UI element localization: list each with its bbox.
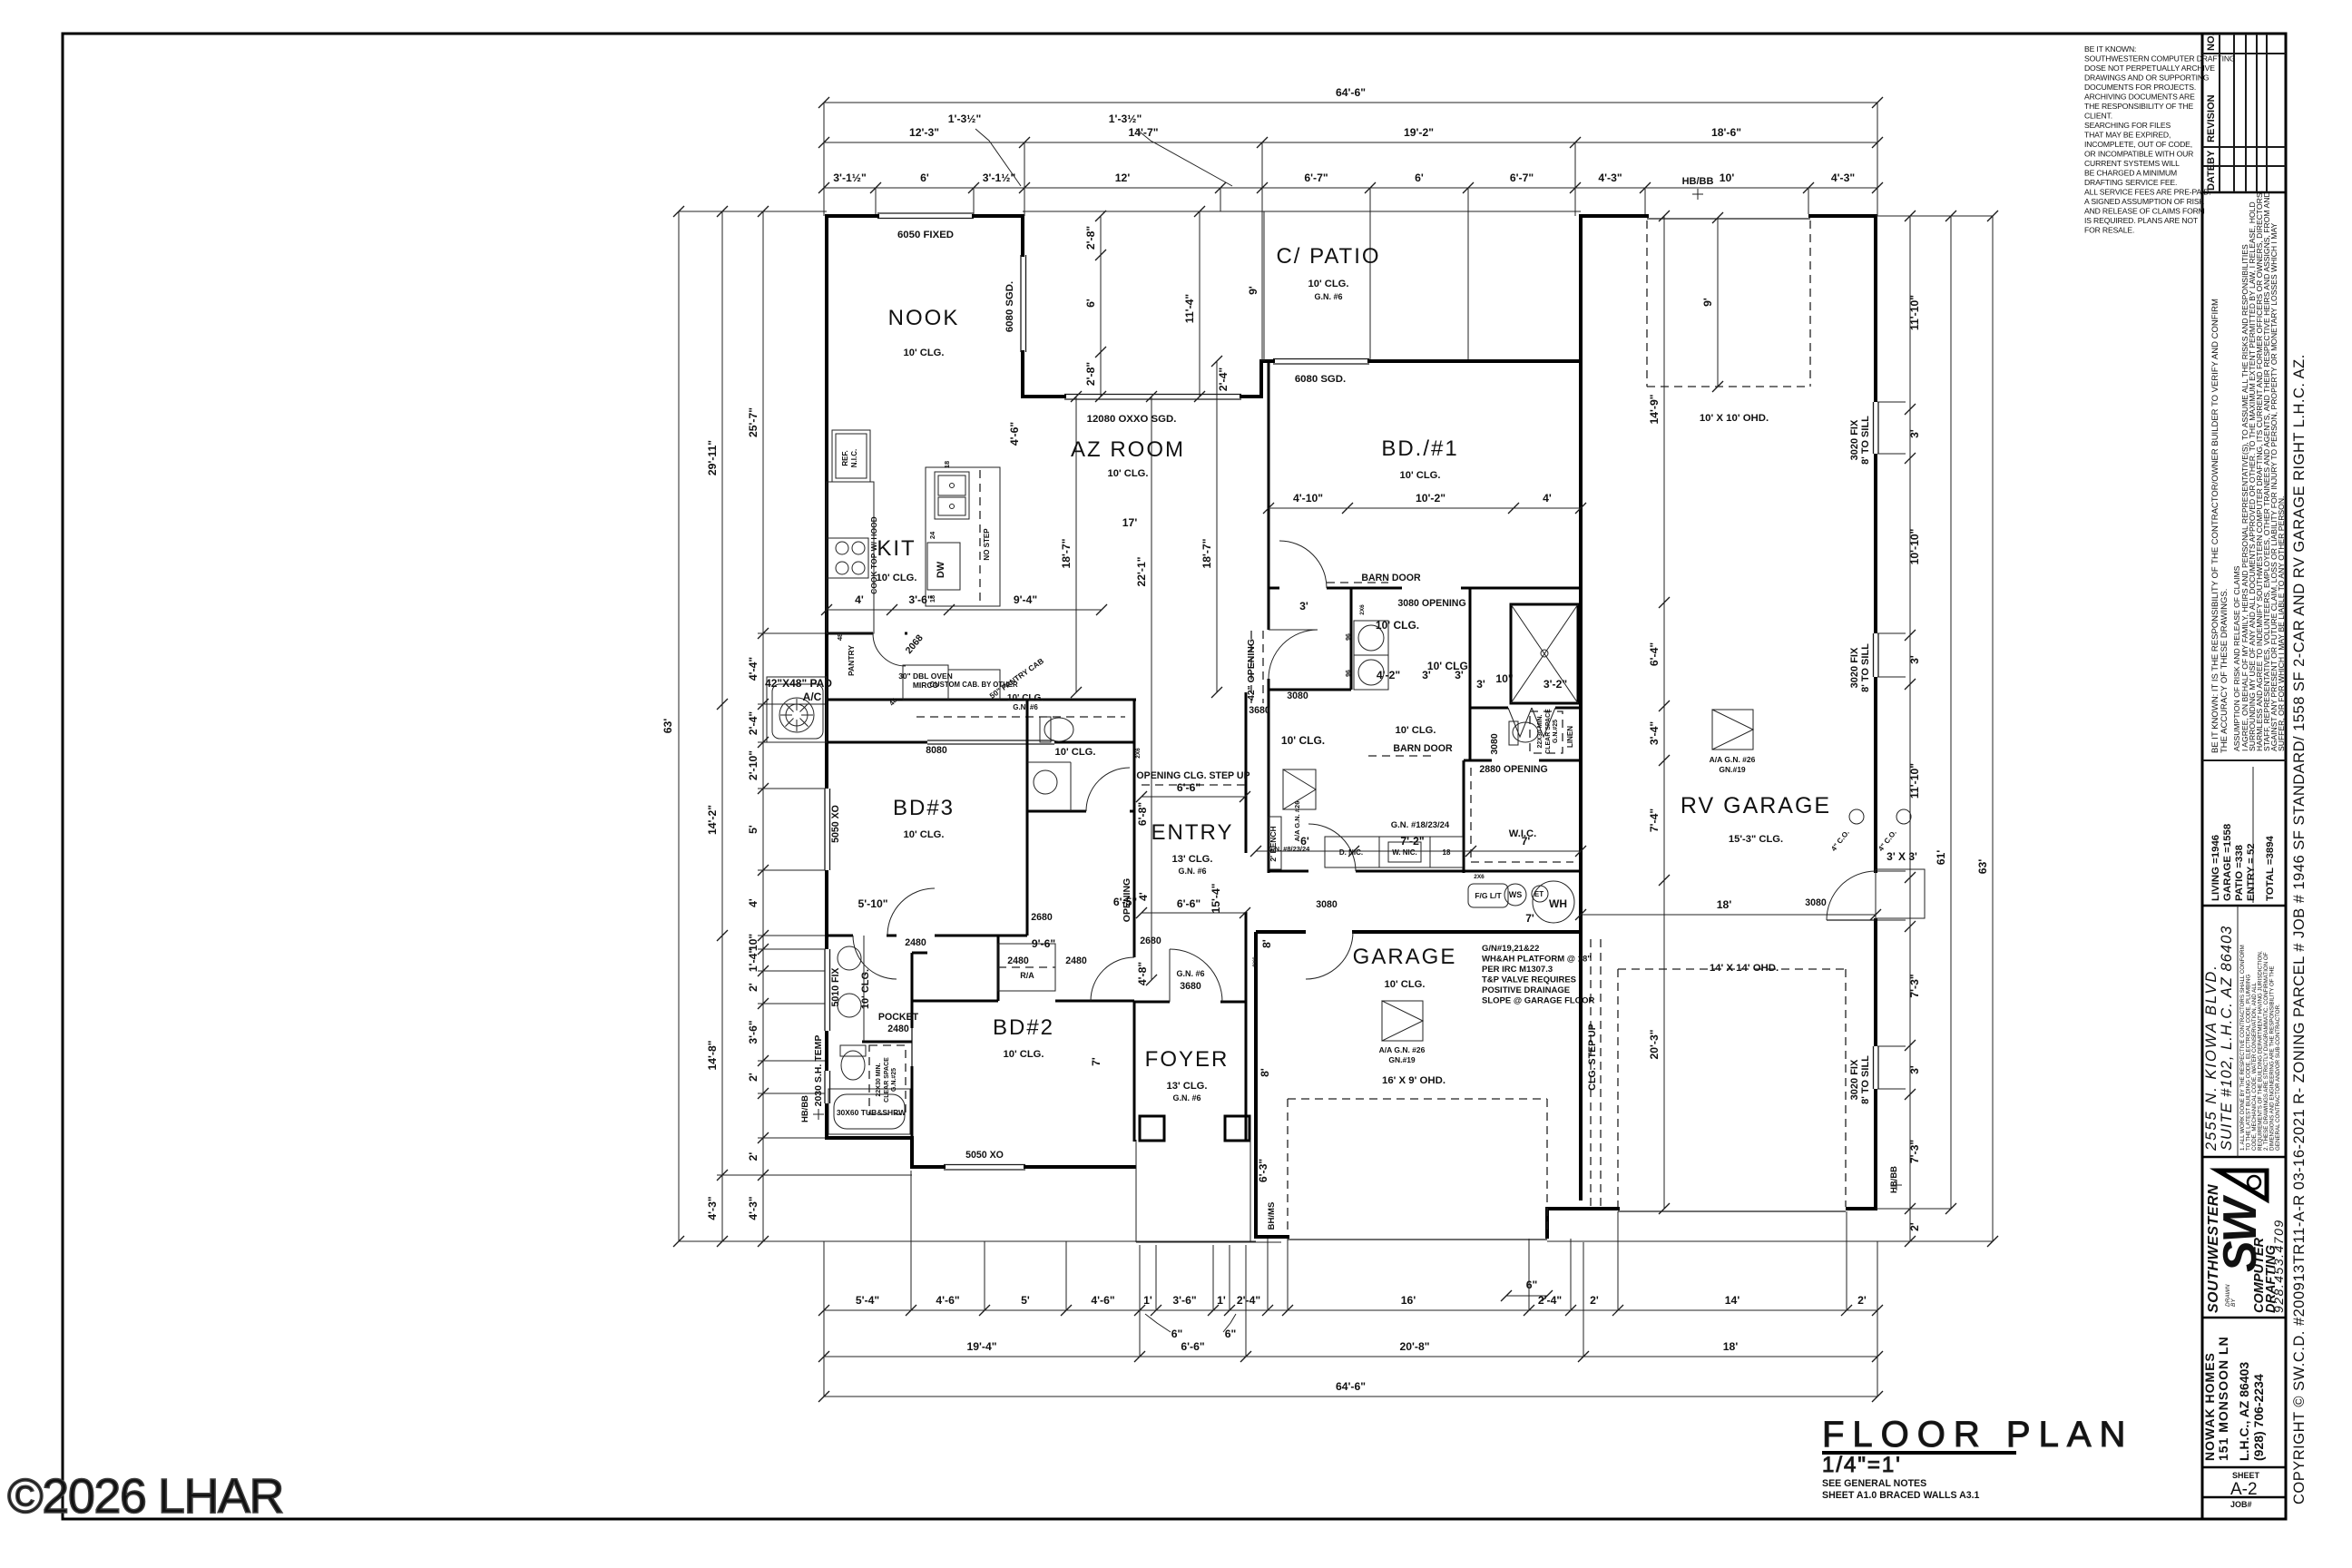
wall: RV garage east (1874, 214, 1877, 402)
svg-text:2X6: 2X6 (1474, 874, 1485, 880)
svg-text:LINEN: LINEN (1566, 726, 1574, 748)
svg-text:G.N. #18/23/24: G.N. #18/23/24 (1391, 820, 1450, 830)
powder room west wall (1026, 700, 1029, 811)
wall: bath south (825, 1136, 914, 1140)
svg-text:3'-6": 3'-6" (747, 1020, 759, 1044)
window 6080 SGD nook east (1020, 255, 1022, 352)
svg-text:30" DBL OVEN: 30" DBL OVEN (898, 671, 953, 681)
svg-text:G.N. #8/23/24: G.N. #8/23/24 (1268, 845, 1311, 853)
svg-text:96: 96 (1346, 633, 1352, 641)
svg-text:6": 6" (1171, 1328, 1183, 1340)
svg-text:2480: 2480 (905, 937, 926, 948)
bath1 clear space dashed (869, 1045, 906, 1114)
barn door dashed (1327, 582, 1388, 583)
dim 63 left (678, 211, 680, 1241)
svg-text:18': 18' (1717, 898, 1732, 911)
wall: BD2 south (5050 XO) (912, 1165, 946, 1169)
svg-text:G/N#19,21&22: G/N#19,21&22 (1482, 944, 1539, 954)
svg-text:10' CLG.: 10' CLG. (877, 573, 917, 583)
svg-text:W.I.C.: W.I.C. (1509, 828, 1536, 839)
svg-text:4'-8": 4'-8" (1136, 962, 1149, 985)
svg-text:SEE GENERAL NOTES: SEE GENERAL NOTES (1822, 1478, 1926, 1489)
svg-text:W. NIC.: W. NIC. (1392, 848, 1417, 857)
svg-text:4': 4' (1137, 892, 1150, 901)
BD1 south wall (doors) (1269, 587, 1279, 590)
svg-text:5050 XO: 5050 XO (965, 1150, 1004, 1161)
svg-text:GENERAL CONTRACTOR AND/OR SUB-: GENERAL CONTRACTOR AND/OR SUB-CONTRACTOR… (2275, 1004, 2281, 1151)
dim chain bottom overall (824, 1396, 1877, 1397)
RV A/A (1712, 710, 1753, 750)
svg-text:WS: WS (1509, 890, 1523, 899)
door 3080 RV east + arc (1827, 919, 1876, 921)
svg-text:18'-7": 18'-7" (1060, 538, 1073, 568)
svg-text:18'-6": 18'-6" (1711, 126, 1741, 139)
svg-text:10' CLG.: 10' CLG. (860, 969, 871, 1009)
master vanity boxes (1325, 837, 1379, 867)
svg-text:5010 FIX: 5010 FIX (830, 968, 841, 1007)
svg-text:4'-3": 4'-3" (706, 1196, 719, 1220)
hall wall y771 (827, 699, 1136, 701)
svg-text:ENTRY: ENTRY (1151, 820, 1234, 845)
svg-text:3': 3' (1299, 600, 1308, 612)
master toilet (1513, 722, 1538, 742)
svg-text:BARN DOOR: BARN DOOR (1361, 573, 1421, 583)
svg-text:14'-9": 14'-9" (1648, 394, 1661, 424)
svg-text:L.H.C., AZ 86403: L.H.C., AZ 86403 (2237, 1362, 2251, 1461)
svg-text:4'-4": 4'-4" (747, 657, 759, 681)
svg-text:PANTRY: PANTRY (847, 645, 856, 676)
svg-text:6'-6": 6'-6" (1177, 897, 1200, 910)
svg-text:RV GARAGE: RV GARAGE (1681, 793, 1831, 818)
dim chain top row3 (824, 187, 1877, 189)
svg-text:OPENING CLG. STEP UP: OPENING CLG. STEP UP (1136, 770, 1249, 781)
svg-text:2': 2' (1857, 1294, 1867, 1307)
svg-text:6'-7": 6'-7" (1510, 171, 1534, 184)
svg-text:2': 2' (747, 1073, 759, 1082)
entry closet A/A (1283, 769, 1316, 809)
SW logo box (2202, 1171, 2286, 1318)
svg-text:6': 6' (920, 171, 929, 184)
svg-text:1'-3½": 1'-3½" (1109, 113, 1142, 125)
svg-text:GARAGE =1558: GARAGE =1558 (2222, 824, 2233, 901)
svg-text:2030 S.H. TEMP: 2030 S.H. TEMP (813, 1035, 824, 1107)
svg-text:48: 48 (836, 633, 844, 641)
svg-text:14'-2": 14'-2" (706, 805, 719, 835)
svg-text:COOK TOP W/ HOOD: COOK TOP W/ HOOD (869, 516, 878, 594)
svg-text:SUFFER, OR FOR WHICH I MAY BE: SUFFER, OR FOR WHICH I MAY BE LIABLE TO … (2277, 496, 2286, 751)
svg-text:R/A: R/A (1020, 971, 1034, 980)
C.O. circles (1849, 809, 1864, 824)
dashed entry/AZ opening (1142, 784, 1245, 786)
dim chain left row3 (762, 211, 764, 1241)
svg-text:10' CLG.: 10' CLG. (1004, 1049, 1044, 1060)
svg-text:22X30 MIN.: 22X30 MIN. (876, 1063, 882, 1096)
svg-text:20'-8": 20'-8" (1399, 1340, 1429, 1353)
wall: AZ room north (12080 OXXO SGD) (1023, 395, 1066, 398)
svg-text:6080 SGD.: 6080 SGD. (1004, 281, 1015, 332)
svg-text:6': 6' (1084, 299, 1097, 308)
fridge (832, 430, 870, 482)
BD3 east wall (1026, 811, 1029, 936)
wall: NOOK east (1021, 216, 1024, 257)
svg-text:63': 63' (1976, 859, 1989, 875)
svg-text:96: 96 (1346, 670, 1352, 677)
svg-text:12080 OXXO SGD.: 12080 OXXO SGD. (1087, 414, 1177, 425)
svg-text:CLEAR SPACE: CLEAR SPACE (884, 1057, 890, 1102)
svg-text:CLG. STEP UP: CLG. STEP UP (1587, 1024, 1598, 1090)
svg-text:10' CLG.: 10' CLG. (1055, 747, 1096, 758)
sheet box (2202, 1471, 2286, 1509)
svg-text:30X60 TUB&SHRW: 30X60 TUB&SHRW (837, 1108, 906, 1117)
svg-text:©2026 LHAR: ©2026 LHAR (7, 1469, 283, 1524)
patio roof edge lines (1023, 211, 1581, 212)
svg-text:18: 18 (1443, 848, 1451, 857)
oven/cab boxes (903, 665, 948, 700)
hall dashed attic access (916, 716, 1125, 718)
wall: garage step (1545, 1207, 1549, 1239)
svg-text:THAT MAY BE EXPIRED,: THAT MAY BE EXPIRED, (2084, 131, 2171, 140)
washer/dryer (1354, 621, 1388, 655)
window 12080 OXXO SGD (1064, 394, 1241, 396)
svg-text:2X6: 2X6 (1252, 956, 1259, 967)
svg-text:11'-10": 11'-10" (1908, 295, 1921, 330)
svg-text:3020 FIX: 3020 FIX (1849, 1059, 1860, 1100)
svg-text:10'-10": 10'-10" (1908, 529, 1921, 565)
svg-text:BE CHARGED A MINIMUM: BE CHARGED A MINIMUM (2084, 169, 2177, 178)
shower (1511, 604, 1578, 703)
svg-text:10' CLG.: 10' CLG. (1308, 279, 1349, 289)
svg-text:SOUTHWESTERN COMPUTER DRAFTING: SOUTHWESTERN COMPUTER DRAFTING (2084, 54, 2236, 64)
svg-text:2X6: 2X6 (1359, 604, 1366, 615)
svg-text:BD#3: BD#3 (893, 796, 955, 820)
garage A/A (1382, 1001, 1423, 1041)
left extension lines (679, 211, 827, 212)
svg-text:A-2: A-2 (2230, 1480, 2258, 1499)
hall vestibule walls (997, 936, 1000, 1001)
svg-text:64'-6": 64'-6" (1336, 86, 1366, 99)
svg-text:3'-1½": 3'-1½" (983, 171, 1015, 184)
door arc bath1 (853, 936, 897, 979)
svg-text:4'-6": 4'-6" (936, 1294, 959, 1307)
svg-text:42"X48" PAD: 42"X48" PAD (765, 677, 832, 690)
dim chain BD1 row (1269, 507, 1581, 509)
svg-text:2'-4": 2'-4" (1217, 367, 1230, 391)
master toilet clear space dashed (1530, 711, 1563, 753)
svg-text:14': 14' (1725, 1294, 1740, 1307)
svg-text:22X30 MIN.: 22X30 MIN. (1537, 714, 1543, 748)
powder toilet (1044, 718, 1073, 741)
folding door 3080 WC (1508, 708, 1555, 737)
svg-text:N.I.C.: N.I.C. (850, 449, 858, 467)
svg-text:7'-3": 7'-3" (1908, 974, 1921, 997)
dim chain left row2 (721, 211, 723, 1241)
svg-text:NOWAK HOMES: NOWAK HOMES (2202, 1352, 2217, 1461)
svg-text:2': 2' (747, 1152, 759, 1161)
svg-text:IS REQUIRED. PLANS ARE NOT: IS REQUIRED. PLANS ARE NOT (2084, 216, 2199, 225)
svg-text:2480: 2480 (887, 1024, 909, 1034)
top extension lines (823, 103, 825, 216)
wall: entry west (1133, 700, 1136, 957)
WIC north wall (2880 opening) (1464, 759, 1492, 762)
wall: garage north (1256, 930, 1306, 934)
BD2 north wall (912, 1000, 998, 1003)
svg-text:1': 1' (1217, 1294, 1226, 1307)
svg-text:29'-11": 29'-11" (706, 440, 719, 475)
door arc laundry (1279, 541, 1327, 588)
svg-text:16' X 9' OHD.: 16' X 9' OHD. (1382, 1075, 1445, 1086)
bath1 vanity sinks (838, 946, 861, 970)
svg-text:NOOK: NOOK (888, 306, 960, 330)
svg-text:151 MONSOON LN: 151 MONSOON LN (2216, 1336, 2230, 1461)
svg-text:BD./#1: BD./#1 (1381, 436, 1458, 461)
svg-text:BARN DOOR: BARN DOOR (1393, 743, 1453, 754)
powder room south wall (1027, 810, 1086, 813)
svg-text:LIVING =1946: LIVING =1946 (2210, 835, 2221, 901)
areas box (2202, 760, 2286, 906)
master south wall (door) (1269, 870, 1308, 873)
svg-text:BY: BY (2230, 1298, 2237, 1307)
WIC west wall (1463, 760, 1465, 873)
master WC/shower block west wall (1469, 588, 1472, 760)
svg-text:10' CLG.: 10' CLG. (1396, 725, 1436, 736)
svg-text:22'-1": 22'-1" (1135, 556, 1148, 586)
svg-text:19'-4": 19'-4" (966, 1340, 996, 1353)
svg-text:15'-3" CLG.: 15'-3" CLG. (1729, 834, 1783, 845)
SW logo graphic (2214, 1171, 2267, 1272)
dashed 42in opening (1250, 631, 1252, 703)
svg-text:8': 8' (1259, 1068, 1271, 1077)
svg-text:14'-7": 14'-7" (1128, 126, 1158, 139)
svg-text:D. NIC.: D. NIC. (1339, 848, 1363, 857)
svg-text:2'-4": 2'-4" (747, 711, 759, 735)
svg-text:T&P VALVE REQUIRES: T&P VALVE REQUIRES (1482, 975, 1576, 985)
dim chain bottom row2 (824, 1356, 1877, 1357)
svg-text:4'-3": 4'-3" (747, 1196, 759, 1220)
svg-text:HB/BB: HB/BB (800, 1095, 810, 1122)
dim chain bottom row1 (824, 1309, 1877, 1311)
right extension lines (1876, 215, 1993, 217)
svg-text:C/ PATIO: C/ PATIO (1276, 244, 1380, 269)
svg-text:3020 FIX: 3020 FIX (1849, 419, 1860, 460)
svg-text:TOTAL =3894: TOTAL =3894 (2265, 835, 2276, 901)
svg-text:SHEET: SHEET (2232, 1471, 2260, 1480)
svg-text:12': 12' (1115, 171, 1131, 184)
svg-text:BY: BY (2206, 150, 2217, 164)
wall: foyer top (3680 door) (1134, 1001, 1170, 1004)
wall: bath/BD2 step (910, 1136, 914, 1169)
svg-text:7': 7' (1525, 912, 1534, 925)
svg-text:13' CLG.: 13' CLG. (1167, 1081, 1208, 1092)
svg-text:10' X 10' OHD.: 10' X 10' OHD. (1700, 413, 1769, 424)
svg-text:4': 4' (747, 898, 759, 907)
svg-text:8' TO SILL: 8' TO SILL (1860, 1055, 1871, 1104)
dashed 16x9 OHD door (1287, 1099, 1289, 1234)
svg-text:3080 OPENING: 3080 OPENING (1397, 598, 1465, 609)
svg-text:2'-4": 2'-4" (1237, 1294, 1260, 1307)
svg-text:HB/BB: HB/BB (1889, 1166, 1899, 1193)
svg-text:12'-3": 12'-3" (909, 126, 939, 139)
svg-text:NO.: NO. (2206, 33, 2217, 51)
svg-text:24: 24 (928, 531, 936, 539)
dashed 14x14 OHD door (1617, 969, 1619, 1207)
svg-text:11'-4": 11'-4" (1183, 294, 1196, 323)
svg-text:3' X 3': 3' X 3' (1886, 850, 1917, 863)
svg-text:7'-2": 7'-2" (1400, 835, 1424, 848)
svg-text:4'-3": 4'-3" (1598, 171, 1622, 184)
svg-text:9'-4": 9'-4" (1014, 593, 1037, 606)
bath1 toilet (841, 1051, 865, 1080)
svg-text:G.N.#25: G.N.#25 (1553, 720, 1559, 743)
svg-text:5': 5' (1021, 1294, 1030, 1307)
svg-text:10': 10' (1720, 171, 1735, 184)
bath1 tub (828, 1089, 910, 1134)
svg-text:928.453.4709: 928.453.4709 (2271, 1219, 2286, 1313)
svg-text:18'-7": 18'-7" (1200, 538, 1213, 568)
svg-text:2480: 2480 (1065, 955, 1087, 966)
island (926, 467, 1000, 606)
svg-text:DRAWINGS AND OR SUPPORTING: DRAWINGS AND OR SUPPORTING (2084, 73, 2210, 83)
svg-text:CURRENT SYSTEMS WILL: CURRENT SYSTEMS WILL (2084, 159, 2180, 168)
svg-text:6'-4": 6'-4" (1648, 642, 1661, 666)
svg-text:3'-2": 3'-2" (1543, 678, 1567, 691)
svg-text:9': 9' (1701, 298, 1714, 307)
svg-text:20'-3": 20'-3" (1648, 1029, 1661, 1059)
dim chain kitchen row (827, 609, 1102, 611)
svg-text:JOB#: JOB# (2230, 1500, 2252, 1509)
svg-text:ALL SERVICE FEES ARE PRE-PAID.: ALL SERVICE FEES ARE PRE-PAID. (2084, 188, 2211, 197)
svg-text:PER IRC M1307.3: PER IRC M1307.3 (1482, 965, 1553, 975)
svg-text:2': 2' (747, 983, 759, 992)
svg-text:ENTRY = 52: ENTRY = 52 (2246, 843, 2257, 901)
svg-text:3': 3' (1908, 1065, 1921, 1074)
svg-text:17': 17' (1122, 516, 1138, 529)
svg-text:6050 FIXED: 6050 FIXED (897, 230, 954, 240)
svg-text:4': 4' (1543, 492, 1552, 505)
svg-text:OR INCOMPATIBLE WITH OUR: OR INCOMPATIBLE WITH OUR (2084, 150, 2193, 159)
svg-text:7': 7' (1090, 1057, 1102, 1066)
svg-text:7'-4": 7'-4" (1648, 808, 1661, 832)
svg-text:AZ ROOM: AZ ROOM (1071, 437, 1185, 462)
svg-text:WH: WH (1549, 897, 1567, 910)
dim chain RV chain (1663, 216, 1665, 1209)
CLG STEP UP dash-dot (1590, 939, 1592, 1207)
door arc BD3 (887, 888, 935, 936)
svg-text:4'-6": 4'-6" (1008, 422, 1021, 446)
svg-text:PATIO =338: PATIO =338 (2234, 845, 2245, 901)
svg-text:A/A G.N. #26: A/A G.N. #26 (1710, 755, 1756, 764)
svg-text:CLIENT.: CLIENT. (2084, 112, 2112, 121)
svg-text:19'-2": 19'-2" (1404, 126, 1434, 139)
svg-text:A SIGNED ASSUMPTION OF RISK: A SIGNED ASSUMPTION OF RISK (2084, 197, 2204, 206)
svg-text:10' CLG.: 10' CLG. (1376, 619, 1419, 632)
svg-text:10' CLG.: 10' CLG. (1400, 470, 1441, 481)
bench (1269, 817, 1281, 869)
svg-text:4'-10": 4'-10" (1293, 492, 1323, 505)
door arc BD2 (1091, 957, 1134, 1001)
shower/WC divider (1470, 707, 1508, 710)
svg-text:2X6: 2X6 (1135, 748, 1142, 759)
bath1 partition (862, 1041, 912, 1044)
svg-text:SUITE #102, L.H.C. AZ 86403: SUITE #102, L.H.C. AZ 86403 (2219, 926, 2235, 1151)
svg-text:G.N. #6: G.N. #6 (1176, 969, 1204, 978)
rotated disclaimer paragraphs (2210, 191, 2286, 753)
wall: house/RV garage division (1579, 214, 1583, 1200)
svg-text:3'-6": 3'-6" (1172, 1294, 1196, 1307)
wall: entry east (1245, 692, 1248, 853)
svg-text:3080: 3080 (1316, 899, 1338, 910)
svg-text:G.N.#25: G.N.#25 (891, 1068, 897, 1092)
svg-text:ET: ET (1534, 890, 1543, 898)
dim 61 right (1950, 216, 1952, 1209)
svg-text:64'-6": 64'-6" (1336, 1380, 1366, 1393)
window 3020 FIX middle (1873, 633, 1875, 677)
svg-text:2480: 2480 (1007, 955, 1029, 966)
svg-text:10' CLG.: 10' CLG. (1281, 734, 1325, 747)
window 6050 FIXED (877, 212, 974, 214)
svg-text:16': 16' (1401, 1294, 1416, 1307)
svg-text:4': 4' (855, 593, 864, 606)
svg-text:THE ACCURACY OF THESE DRAWINGS: THE ACCURACY OF THESE DRAWINGS. (2220, 589, 2229, 753)
svg-text:BH/MS: BH/MS (1267, 1202, 1277, 1230)
pantry door arc 2068 (873, 633, 906, 666)
svg-text:1/4"=1': 1/4"=1' (1822, 1453, 1902, 1477)
svg-text:OPENING: OPENING (1122, 878, 1132, 922)
svg-text:6'-7": 6'-7" (1304, 171, 1328, 184)
svg-text:10' CLG.: 10' CLG. (904, 829, 945, 840)
svg-text:2'-8": 2'-8" (1084, 362, 1097, 386)
svg-text:1': 1' (1143, 1294, 1152, 1307)
svg-text:GN.#19: GN.#19 (1719, 765, 1746, 774)
svg-text:A/C: A/C (803, 691, 822, 703)
svg-text:KIT: KIT (877, 536, 916, 561)
svg-text:FOYER: FOYER (1145, 1047, 1230, 1072)
svg-text:3'-1½": 3'-1½" (833, 171, 866, 184)
svg-text:3'-4": 3'-4" (1648, 721, 1661, 745)
svg-text:GN.#19: GN.#19 (1388, 1055, 1416, 1064)
window 2030 S.H. west (824, 1071, 826, 1103)
svg-text:14'-8": 14'-8" (706, 1040, 719, 1070)
svg-text:8': 8' (1260, 939, 1273, 948)
svg-text:6": 6" (1225, 1328, 1237, 1340)
svg-text:REVISION: REVISION (2206, 94, 2217, 142)
window 5050 XO BD2 (944, 1164, 1025, 1166)
svg-text:FOR RESALE.: FOR RESALE. (2084, 226, 2134, 235)
svg-text:5050 XO: 5050 XO (830, 805, 841, 843)
svg-text:6'-3": 6'-3" (1257, 1159, 1269, 1182)
svg-text:13' CLG.: 13' CLG. (1172, 854, 1213, 865)
wall: RV garage south (1846, 1207, 1877, 1210)
svg-text:10'-2": 10'-2" (1416, 492, 1445, 505)
svg-text:DRAFTING SERVICE FEE.: DRAFTING SERVICE FEE. (2084, 178, 2177, 187)
dim chain garage hall row (1256, 850, 1581, 852)
window 5010 FIX west (824, 949, 826, 1031)
svg-text:FLOOR PLAN: FLOOR PLAN (1822, 1415, 2133, 1455)
svg-text:10' CLG.: 10' CLG. (904, 348, 945, 358)
svg-text:5'-4": 5'-4" (856, 1294, 879, 1307)
hall cabinet (998, 944, 1055, 991)
window 5050 XO west (824, 789, 826, 870)
svg-text:5': 5' (747, 825, 759, 834)
svg-text:63': 63' (661, 719, 674, 734)
porch edges (1135, 1140, 1137, 1242)
svg-text:9'-6": 9'-6" (1032, 937, 1055, 950)
svg-text:A/A G.N. #26: A/A G.N. #26 (1293, 801, 1301, 842)
revision table (2202, 33, 2286, 192)
svg-text:10": 10" (1495, 672, 1513, 685)
wall: AZ/BD1 connector (1259, 359, 1263, 398)
svg-text:2'-10": 2'-10" (747, 750, 759, 780)
svg-text:SLOPE @ GARAGE FLOOR: SLOPE @ GARAGE FLOOR (1482, 996, 1594, 1006)
